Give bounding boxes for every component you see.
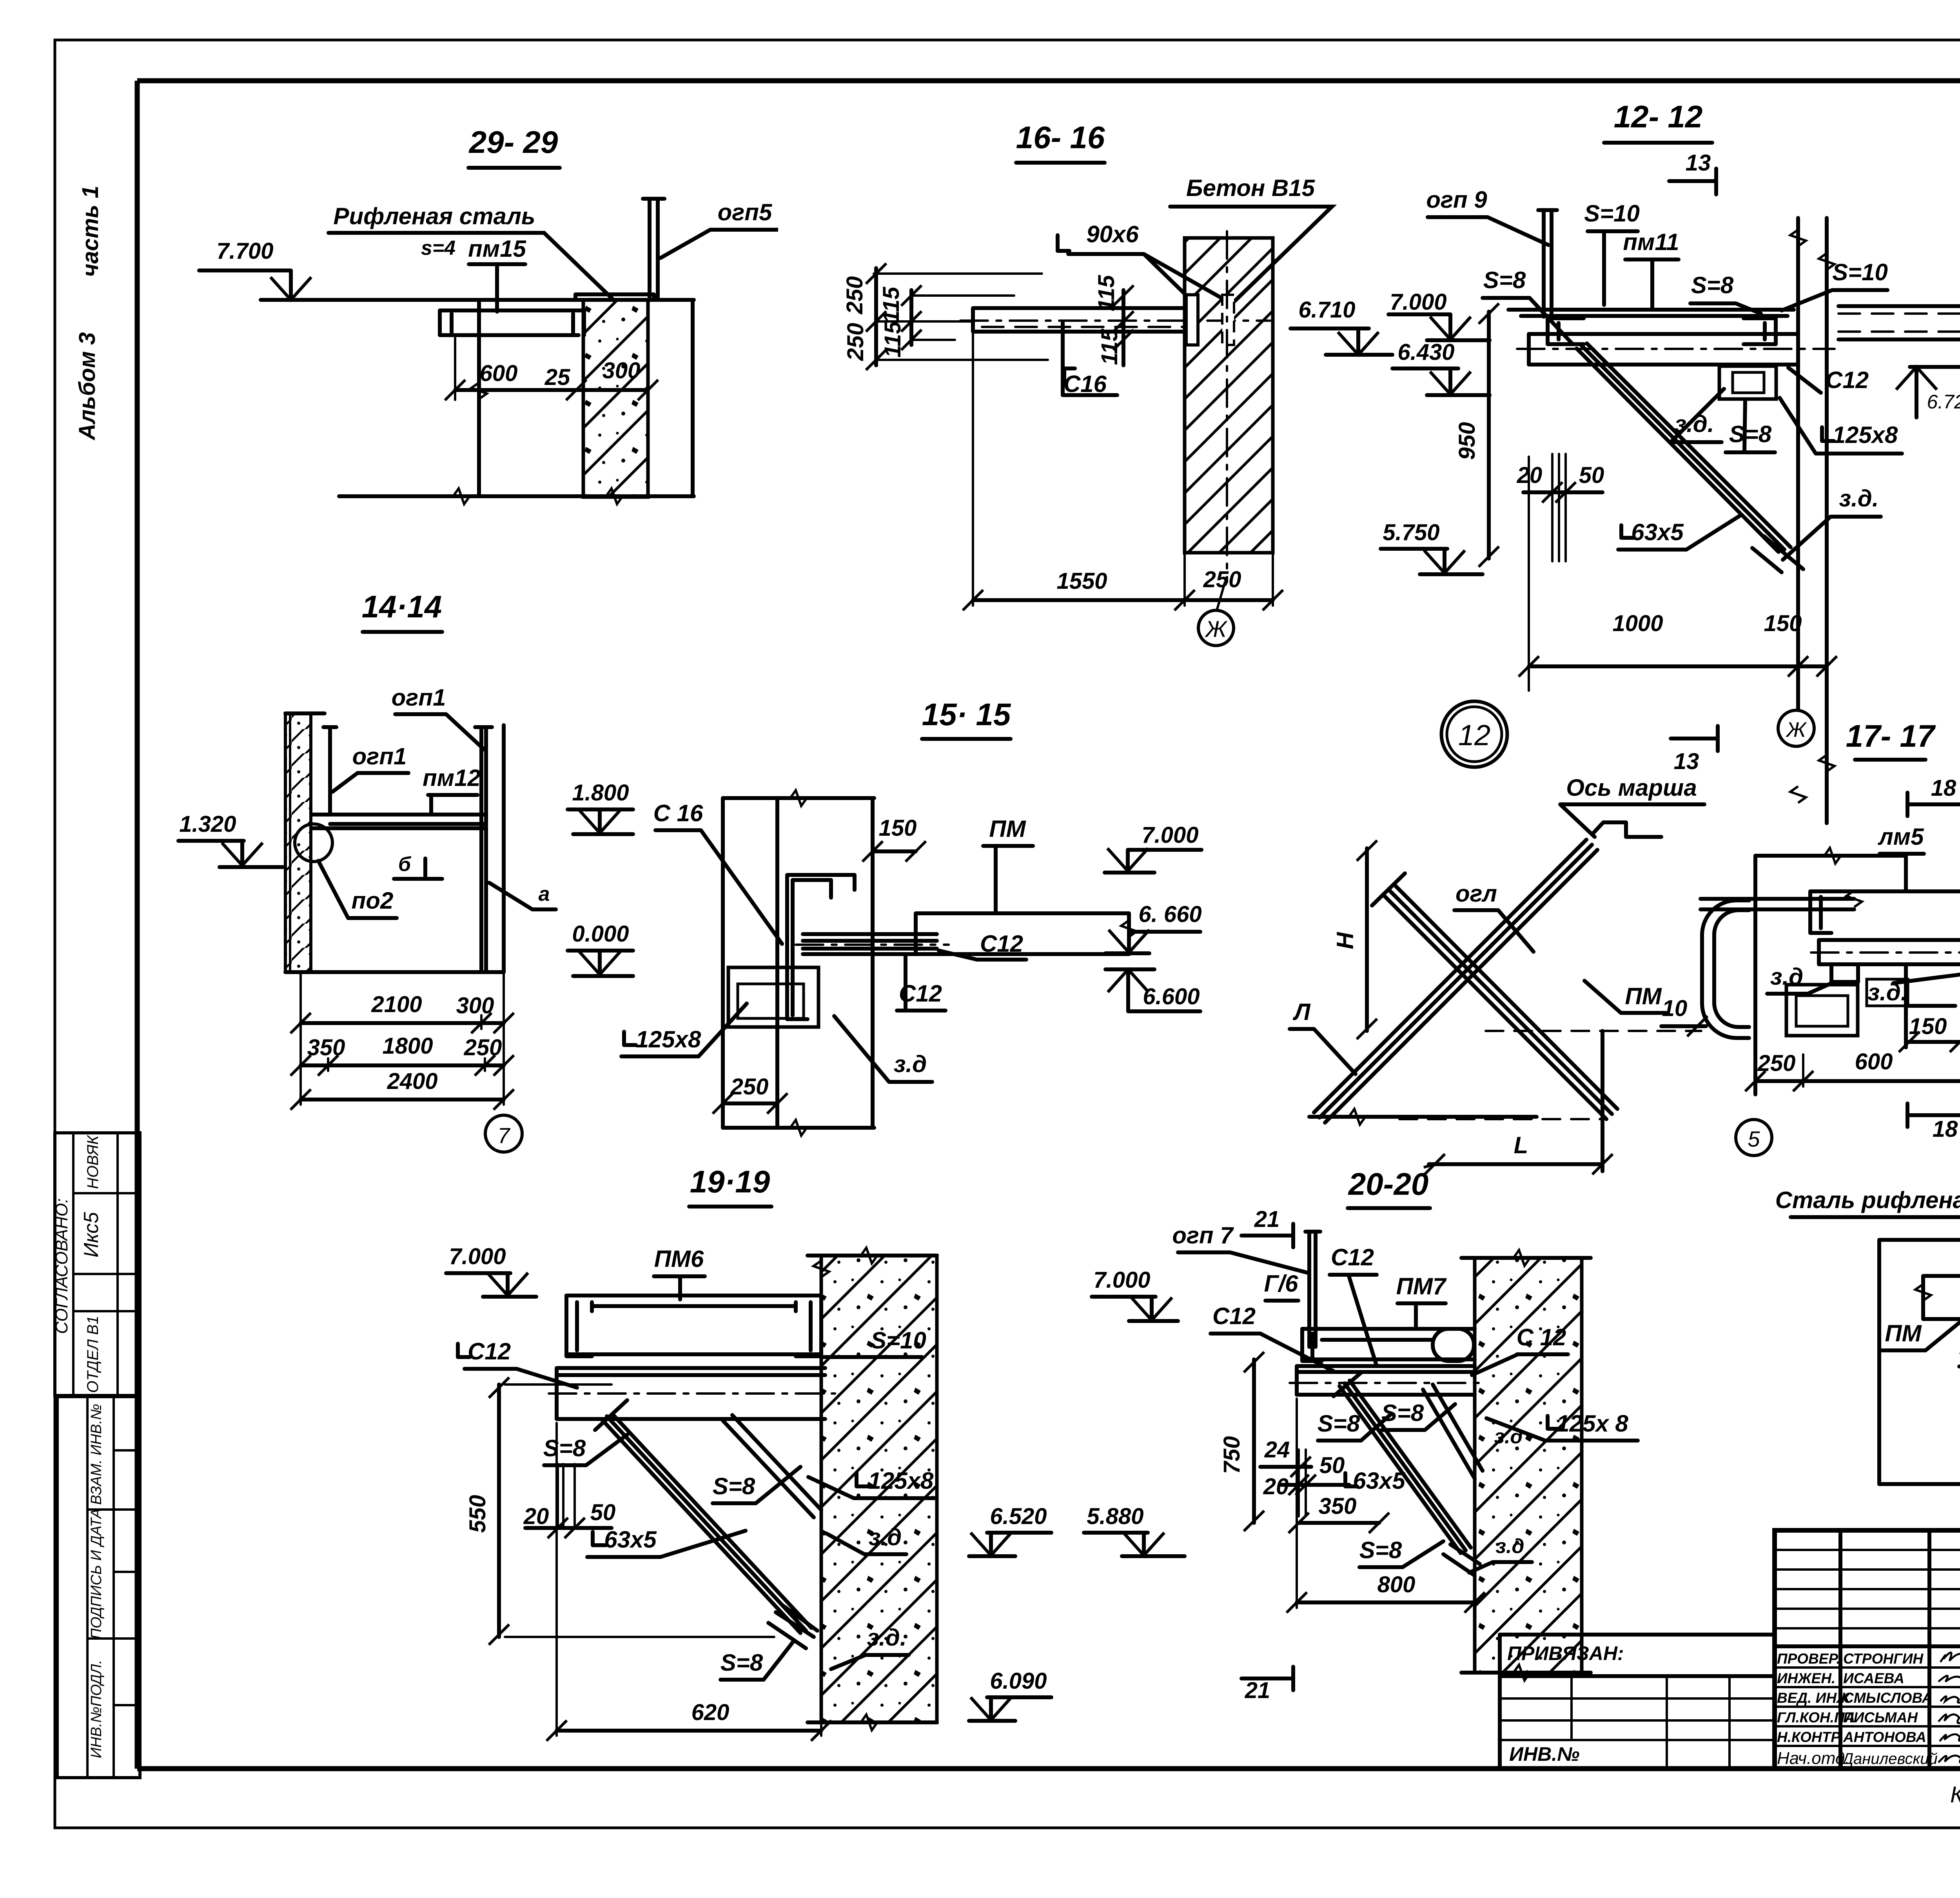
svg-text:7.000: 7.000 xyxy=(1093,1267,1150,1293)
svg-text:15· 15: 15· 15 xyxy=(922,697,1011,732)
svg-text:Н.КОНТР.: Н.КОНТР. xyxy=(1777,1729,1843,1745)
svg-text:пм15: пм15 xyxy=(468,236,526,262)
svg-text:19·19: 19·19 xyxy=(690,1164,770,1199)
svg-text:125х 8: 125х 8 xyxy=(1556,1410,1628,1437)
svg-text:часть 1: часть 1 xyxy=(78,186,103,277)
svg-text:1000: 1000 xyxy=(1612,611,1663,636)
svg-text:лм5: лм5 xyxy=(1877,824,1924,850)
svg-text:Данилевский: Данилевский xyxy=(1841,1750,1938,1767)
svg-text:125х8: 125х8 xyxy=(1833,422,1898,448)
svg-text:21: 21 xyxy=(1254,1207,1280,1232)
svg-text:50: 50 xyxy=(1579,463,1604,488)
svg-text:115: 115 xyxy=(1097,328,1122,365)
svg-text:50: 50 xyxy=(1319,1453,1345,1478)
svg-text:С12: С12 xyxy=(1212,1303,1256,1329)
svg-text:12: 12 xyxy=(1458,719,1490,751)
svg-text:огп1: огп1 xyxy=(352,743,407,769)
svg-text:ВЕД. ИНЖ: ВЕД. ИНЖ xyxy=(1777,1690,1851,1706)
svg-text:0.000: 0.000 xyxy=(572,921,629,947)
svg-text:S=8: S=8 xyxy=(713,1473,755,1499)
svg-text:115: 115 xyxy=(878,287,904,323)
svg-text:Л: Л xyxy=(1292,999,1311,1025)
svg-text:б: б xyxy=(398,853,412,876)
svg-text:з.д: з.д xyxy=(1495,1535,1524,1558)
svg-text:СОГЛАСОВАНО:: СОГЛАСОВАНО: xyxy=(52,1198,71,1334)
svg-text:ИНВ.№ПОДЛ.: ИНВ.№ПОДЛ. xyxy=(88,1660,105,1758)
svg-text:115: 115 xyxy=(880,321,906,357)
svg-text:250: 250 xyxy=(1757,1051,1796,1076)
svg-text:S=8: S=8 xyxy=(1318,1410,1360,1437)
svg-text:21: 21 xyxy=(1245,1678,1270,1703)
svg-text:СТРОНГИН: СТРОНГИН xyxy=(1843,1651,1924,1667)
svg-text:10: 10 xyxy=(1662,996,1688,1021)
svg-text:250: 250 xyxy=(1203,567,1241,592)
svg-text:29- 29: 29- 29 xyxy=(468,125,558,160)
svg-text:Нач.отд.: Нач.отд. xyxy=(1777,1749,1849,1768)
svg-text:ВЗАМ. ИНВ.№: ВЗАМ. ИНВ.№ xyxy=(88,1404,105,1505)
svg-text:S=8: S=8 xyxy=(720,1649,763,1676)
svg-text:Ось марша: Ось марша xyxy=(1566,775,1697,801)
svg-text:Альбом 3: Альбом 3 xyxy=(74,332,100,441)
svg-text:С12: С12 xyxy=(468,1338,511,1365)
svg-text:18: 18 xyxy=(1933,1116,1958,1142)
svg-text:огп 9: огп 9 xyxy=(1426,187,1487,213)
svg-text:25: 25 xyxy=(544,365,570,390)
svg-text:по2: по2 xyxy=(352,887,394,914)
svg-text:125х8: 125х8 xyxy=(636,1026,701,1052)
svg-text:5.880: 5.880 xyxy=(1087,1504,1143,1529)
svg-text:150: 150 xyxy=(879,815,917,841)
svg-text:S=10: S=10 xyxy=(1832,259,1888,285)
svg-text:S=8: S=8 xyxy=(1483,267,1526,293)
svg-text:7.000: 7.000 xyxy=(449,1244,506,1269)
svg-text:6. 660: 6. 660 xyxy=(1138,902,1201,927)
svg-text:з.д: з.д xyxy=(1494,1425,1523,1448)
svg-text:24: 24 xyxy=(1264,1437,1290,1463)
svg-text:з.д.: з.д. xyxy=(867,1624,906,1651)
svg-text:1.320: 1.320 xyxy=(179,811,236,837)
svg-text:з.д: з.д xyxy=(869,1524,902,1550)
svg-text:125х8: 125х8 xyxy=(868,1468,934,1494)
svg-text:а: а xyxy=(539,883,550,905)
svg-text:Рифленая сталь: Рифленая сталь xyxy=(333,203,535,229)
svg-text:S=8: S=8 xyxy=(1729,421,1772,447)
svg-text:ПМ7: ПМ7 xyxy=(1396,1273,1447,1299)
svg-text:ПИСЬМАН: ПИСЬМАН xyxy=(1843,1709,1918,1726)
svg-text:750: 750 xyxy=(1219,1436,1245,1474)
svg-text:7.700: 7.700 xyxy=(216,238,273,264)
svg-text:s=4: s=4 xyxy=(421,237,456,259)
svg-text:7: 7 xyxy=(497,1123,510,1148)
svg-text:600: 600 xyxy=(1855,1049,1893,1074)
svg-text:5.750: 5.750 xyxy=(1383,520,1439,545)
svg-text:ПМ: ПМ xyxy=(989,816,1026,842)
svg-text:7.000: 7.000 xyxy=(1390,289,1446,315)
svg-text:Копировал: Логинова: Копировал: Логинова xyxy=(1950,1782,1960,1807)
svg-text:20-20: 20-20 xyxy=(1348,1167,1429,1201)
svg-text:ИСАЕВА: ИСАЕВА xyxy=(1843,1670,1904,1686)
svg-text:90х6: 90х6 xyxy=(1086,221,1139,247)
svg-text:18: 18 xyxy=(1931,775,1956,801)
svg-text:ПОДПИСЬ И ДАТА: ПОДПИСЬ И ДАТА xyxy=(88,1508,105,1639)
svg-text:S=8: S=8 xyxy=(543,1435,586,1461)
svg-text:НОВЯК: НОВЯК xyxy=(84,1134,102,1189)
svg-text:20: 20 xyxy=(523,1504,549,1529)
svg-text:Сталь рифленая S=4: Сталь рифленая S=4 xyxy=(1775,1187,1960,1213)
svg-text:50: 50 xyxy=(590,1500,616,1525)
svg-text:63х5: 63х5 xyxy=(1631,519,1684,545)
svg-text:ПРОВЕР.: ПРОВЕР. xyxy=(1777,1651,1840,1667)
svg-text:L: L xyxy=(1514,1132,1528,1158)
svg-text:7.000: 7.000 xyxy=(1142,822,1198,848)
svg-text:огп1: огп1 xyxy=(392,684,446,711)
svg-text:АНТОНОВА: АНТОНОВА xyxy=(1843,1729,1926,1745)
svg-text:пм12: пм12 xyxy=(423,765,481,791)
svg-text:ИНЖЕН.: ИНЖЕН. xyxy=(1777,1670,1835,1686)
svg-text:250: 250 xyxy=(843,323,868,361)
svg-text:6.430: 6.430 xyxy=(1397,339,1454,365)
svg-text:огп 7: огп 7 xyxy=(1172,1222,1234,1248)
svg-text:250: 250 xyxy=(464,1035,502,1060)
svg-text:С16: С16 xyxy=(1063,371,1107,397)
svg-text:огл: огл xyxy=(1455,880,1497,907)
svg-text:6.520: 6.520 xyxy=(990,1504,1047,1529)
svg-text:Икс5: Икс5 xyxy=(80,1212,103,1257)
svg-text:250: 250 xyxy=(842,276,867,315)
svg-text:Г/6: Г/6 xyxy=(1264,1270,1298,1297)
svg-text:ИНВ.№: ИНВ.№ xyxy=(1509,1743,1579,1765)
svg-text:С12: С12 xyxy=(1331,1244,1374,1270)
svg-text:17- 17: 17- 17 xyxy=(1846,719,1936,753)
svg-text:1.800: 1.800 xyxy=(572,780,629,806)
svg-text:6.600: 6.600 xyxy=(1143,984,1200,1009)
svg-text:550: 550 xyxy=(465,1495,490,1533)
svg-text:950: 950 xyxy=(1454,422,1480,460)
svg-text:13: 13 xyxy=(1674,749,1699,774)
svg-text:12- 12: 12- 12 xyxy=(1614,99,1703,134)
svg-text:з.д.: з.д. xyxy=(1867,979,1907,1005)
svg-text:620: 620 xyxy=(691,1700,730,1725)
svg-text:S=8: S=8 xyxy=(1691,272,1734,298)
svg-text:Ж: Ж xyxy=(1204,617,1228,642)
svg-text:115: 115 xyxy=(1094,275,1119,311)
svg-text:ПМ: ПМ xyxy=(1885,1320,1922,1346)
svg-text:ПМ: ПМ xyxy=(1625,983,1662,1009)
svg-text:з.д.: з.д. xyxy=(1839,485,1878,512)
svg-text:з.д: з.д xyxy=(894,1051,927,1077)
svg-text:1550: 1550 xyxy=(1056,568,1107,594)
svg-text:16- 16: 16- 16 xyxy=(1016,120,1105,155)
svg-text:С12: С12 xyxy=(1826,367,1869,393)
svg-text:6.720: 6.720 xyxy=(1927,391,1960,413)
svg-text:300: 300 xyxy=(603,358,641,383)
svg-text:300: 300 xyxy=(456,993,494,1018)
svg-text:Бетон В15: Бетон В15 xyxy=(1186,175,1316,201)
svg-text:5: 5 xyxy=(1748,1127,1760,1151)
svg-text:S=8: S=8 xyxy=(1381,1400,1424,1426)
svg-text:пм11: пм11 xyxy=(1623,229,1679,255)
svg-text:S=10: S=10 xyxy=(1584,200,1640,227)
svg-text:S=10: S=10 xyxy=(871,1327,926,1354)
svg-text:ПМ6: ПМ6 xyxy=(654,1246,704,1272)
svg-text:150: 150 xyxy=(1764,611,1802,636)
svg-text:2100: 2100 xyxy=(371,992,422,1017)
svg-text:6.710: 6.710 xyxy=(1298,297,1355,323)
svg-text:800: 800 xyxy=(1377,1572,1416,1597)
svg-text:14·14: 14·14 xyxy=(362,589,442,624)
svg-text:огп5: огп5 xyxy=(718,199,773,225)
svg-text:Ж: Ж xyxy=(1785,718,1807,742)
svg-text:63х5: 63х5 xyxy=(1353,1468,1406,1494)
svg-text:С 16: С 16 xyxy=(653,800,703,826)
svg-text:350: 350 xyxy=(1319,1493,1357,1519)
svg-text:13: 13 xyxy=(1686,150,1711,176)
svg-text:2400: 2400 xyxy=(387,1069,437,1094)
svg-text:350: 350 xyxy=(307,1035,345,1060)
svg-text:ОТДЕЛ В1: ОТДЕЛ В1 xyxy=(84,1316,102,1393)
svg-text:250: 250 xyxy=(730,1074,769,1100)
svg-text:6.090: 6.090 xyxy=(990,1668,1047,1694)
svg-text:600: 600 xyxy=(480,361,518,386)
svg-text:63х5: 63х5 xyxy=(604,1526,657,1553)
svg-text:СМЫСЛОВА: СМЫСЛОВА xyxy=(1843,1690,1933,1706)
svg-text:С12: С12 xyxy=(980,931,1023,957)
svg-text:Н: Н xyxy=(1332,932,1358,949)
svg-text:S=8: S=8 xyxy=(1359,1537,1402,1563)
svg-text:1800: 1800 xyxy=(382,1033,433,1059)
